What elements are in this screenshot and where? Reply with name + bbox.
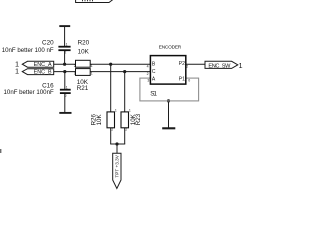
svg-text:10K: 10K — [78, 48, 90, 55]
svg-text:R20: R20 — [78, 40, 90, 47]
svg-text:R21: R21 — [77, 85, 89, 92]
svg-text:2: 2 — [186, 64, 188, 68]
svg-text:1: 1 — [66, 43, 68, 47]
svg-text:1: 1 — [239, 61, 243, 70]
svg-text:2: 2 — [74, 64, 76, 68]
svg-text:1: 1 — [91, 71, 93, 75]
svg-text:2: 2 — [74, 71, 76, 75]
svg-text:2: 2 — [125, 128, 127, 132]
svg-text:10nF better 100 nF: 10nF better 100 nF — [2, 47, 54, 54]
svg-text:P2: P2 — [179, 61, 185, 67]
svg-text:C: C — [152, 69, 156, 75]
svg-text:2: 2 — [147, 72, 149, 76]
svg-text:ENC_SW: ENC_SW — [208, 63, 231, 69]
svg-text:1: 1 — [66, 86, 68, 90]
svg-text:C20: C20 — [42, 39, 54, 46]
svg-text:3: 3 — [147, 79, 149, 83]
svg-text:ENC_B: ENC_B — [34, 70, 52, 76]
svg-text:0: 0 — [188, 79, 190, 83]
svg-text:R23: R23 — [135, 113, 142, 125]
svg-text:1: 1 — [91, 64, 93, 68]
svg-text:2: 2 — [65, 94, 67, 98]
svg-text:1: 1 — [115, 109, 117, 113]
svg-text:P1: P1 — [179, 76, 185, 82]
svg-text:1: 1 — [15, 67, 19, 76]
svg-text:ENCODER: ENCODER — [159, 45, 182, 51]
svg-text:10K: 10K — [96, 114, 103, 126]
svg-text:TPT +3.3V: TPT +3.3V — [115, 154, 120, 177]
svg-text:4: 4 — [147, 64, 149, 68]
svg-text:ENC_A: ENC_A — [34, 62, 52, 68]
svg-text:2: 2 — [64, 51, 66, 55]
svg-text:2: 2 — [111, 128, 113, 132]
svg-text:1: 1 — [129, 109, 131, 113]
svg-text:S1: S1 — [150, 91, 157, 98]
svg-text:10nF better 100nF: 10nF better 100nF — [4, 89, 54, 96]
